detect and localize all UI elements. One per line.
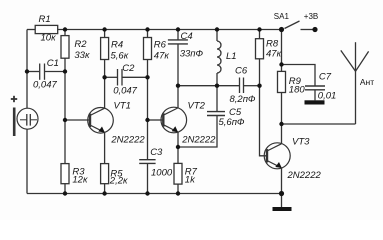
transistor VT3 [264, 143, 290, 169]
capacitor C5 [207, 112, 225, 116]
svg-text:5,6к: 5,6к [111, 50, 129, 61]
svg-text:47к: 47к [266, 48, 282, 59]
wire VT1 base [65, 119, 90, 121]
node R5 bottom [102, 191, 106, 195]
capacitor C2 [118, 69, 123, 86]
wire mid rail right segment [244, 85, 260, 87]
svg-text:0,047: 0,047 [33, 80, 57, 91]
node ground [279, 191, 284, 196]
svg-text:VT1: VT1 [114, 101, 131, 112]
wire C7 bottom lead [314, 90, 316, 101]
svg-text:C7: C7 [319, 72, 332, 83]
wire base node down to R3 [64, 120, 66, 164]
wire left column (mic bottom) [26, 129, 28, 193]
wire L1 bottom lead [216, 73, 218, 86]
node VT2 emitter [176, 145, 180, 149]
node R8 top [257, 27, 261, 31]
wire R6 top lead [147, 30, 149, 38]
wire top rail R1 to SA1 [58, 29, 282, 31]
resistor R8 [256, 39, 264, 59]
wire VT1 emitter to R5 [104, 132, 106, 163]
node R9 top [279, 62, 283, 66]
resistor R6 [144, 38, 152, 60]
node C3 bottom [145, 191, 149, 195]
switch SA1 lever [285, 21, 300, 29]
transistor VT2 [161, 107, 187, 133]
inductor L1 [217, 41, 221, 73]
wire R3 bottom lead [64, 184, 66, 194]
capacitor C1 [40, 64, 45, 80]
node +3B terminal [312, 27, 317, 32]
wire ground stub [281, 194, 283, 208]
svg-text:0,047: 0,047 [113, 86, 137, 97]
wire C2 left [105, 76, 117, 78]
node C1 right R2 bottom [63, 69, 67, 73]
node L1 top [215, 27, 219, 31]
resistor R1 [35, 25, 58, 33]
resistor R5 [101, 164, 109, 184]
capacitor C6 [240, 78, 244, 94]
wire C5 top to L1 node [216, 86, 218, 112]
capacitor C4 [168, 40, 188, 44]
mic plus sign [11, 96, 17, 102]
resistor R2 [61, 36, 69, 59]
node SA1 left terminal [279, 27, 284, 32]
node C1 left [25, 69, 29, 73]
svg-text:2,2к: 2,2к [109, 176, 128, 187]
wire bottom rail [27, 193, 282, 195]
svg-text:C2: C2 [122, 63, 135, 74]
wire L1 top lead [216, 30, 218, 42]
wire emitter node to C5 [178, 116, 217, 148]
wire R2 bottom to C1 node [64, 58, 66, 71]
svg-text:2N2222: 2N2222 [181, 135, 216, 146]
wire VT2 base node down to C3 [147, 120, 149, 160]
node C4 top [176, 27, 180, 31]
svg-text:2N2222: 2N2222 [110, 134, 145, 145]
wire mid rail left segment [178, 85, 239, 87]
wire VT1 collector [104, 77, 106, 108]
wire SA1 right terminal [301, 29, 314, 31]
svg-text:10к: 10к [41, 33, 57, 44]
wire R7 top lead [177, 147, 179, 163]
wire C2 right [123, 76, 148, 78]
node R3 bottom [63, 191, 67, 195]
resistor R4 [101, 38, 109, 60]
node R1-R2 [63, 27, 67, 31]
wire R4 top lead [104, 30, 106, 38]
svg-text:L1: L1 [226, 51, 237, 62]
svg-text:Ант: Ант [360, 77, 374, 87]
svg-text:SA1: SA1 [274, 12, 290, 21]
wire R6 bottom to C2 node [147, 60, 149, 78]
wire R8 bottom to mid node [259, 59, 261, 86]
wire R2 top lead [64, 30, 66, 36]
svg-text:0,01: 0,01 [318, 91, 337, 102]
wire C1 left [27, 71, 39, 73]
wire VT2 emitter down [177, 132, 179, 147]
svg-text:+3В: +3В [304, 12, 318, 21]
antenna right prong [356, 51, 369, 71]
resistor R9 [278, 71, 286, 92]
svg-text:C4: C4 [181, 31, 193, 42]
svg-text:VT2: VT2 [188, 101, 206, 112]
wire C2 node to VT2 base node [147, 77, 149, 120]
wire mid node down to VT3 base [260, 86, 268, 156]
node VT2 base [145, 118, 149, 122]
svg-text:C1: C1 [47, 58, 59, 69]
node R7 bottom [176, 191, 180, 195]
wire collector node to antenna [282, 123, 356, 125]
resistor R7 [174, 163, 182, 184]
wire SA1 down to R9 node [281, 30, 283, 65]
node R8 bottom [257, 84, 261, 88]
node VT1 base [63, 118, 67, 122]
wire VT2 collector [177, 86, 179, 108]
capacitor C7 [305, 86, 325, 90]
wire R9 bottom to collector node [281, 93, 283, 125]
svg-text:VT3: VT3 [292, 136, 310, 147]
capacitor C3 [139, 160, 155, 164]
wire left column (mic top) [26, 30, 28, 109]
svg-text:33к: 33к [74, 50, 90, 61]
svg-text:1000: 1000 [151, 167, 173, 178]
wire R5 bottom lead [104, 184, 106, 194]
wire top rail left lead to R1 [27, 29, 35, 31]
svg-text:R4: R4 [111, 39, 123, 50]
svg-text:C6: C6 [235, 66, 248, 77]
wire R7 bottom lead [177, 184, 179, 193]
wire C3 bottom lead [147, 163, 149, 193]
node C2 right [145, 75, 149, 79]
wire C1 node to VT1 base node [64, 72, 66, 121]
wire R9 node to C7 [282, 65, 316, 87]
wire VT2 base [148, 119, 164, 121]
node C4 bottom [176, 84, 180, 88]
node R4 top [102, 27, 106, 31]
svg-text:R6: R6 [154, 39, 167, 50]
wire R9 top lead [281, 65, 283, 72]
svg-text:47к: 47к [154, 50, 170, 61]
svg-text:12к: 12к [72, 175, 88, 186]
svg-text:8,2пФ: 8,2пФ [230, 94, 256, 105]
svg-text:5,6пФ: 5,6пФ [219, 117, 245, 128]
transistor VT1 [88, 108, 114, 134]
ground (bottom) [273, 207, 292, 211]
wire VT3 emitter down [281, 168, 283, 194]
svg-text:R2: R2 [74, 39, 87, 50]
antenna left prong [341, 50, 356, 71]
svg-text:1k: 1k [185, 174, 196, 185]
svg-text:R1: R1 [39, 14, 51, 25]
svg-text:2N2222: 2N2222 [287, 170, 322, 181]
svg-text:180: 180 [289, 84, 306, 95]
svg-text:C3: C3 [150, 147, 163, 158]
ground (C7) [305, 100, 325, 104]
microphone BM1 [14, 108, 38, 137]
node R6 top [145, 27, 149, 31]
antenna mast [355, 42, 357, 124]
wire VT3 collector [281, 124, 283, 144]
resistor R3 [61, 164, 69, 184]
wire C4 top lead [177, 30, 179, 40]
node VT3 collector [279, 122, 283, 126]
wire R8 top lead [259, 30, 261, 39]
svg-text:33пФ: 33пФ [180, 48, 204, 59]
wire R4 bottom to C2 node [104, 60, 106, 78]
wire C1 right [45, 71, 65, 73]
wire C4 bottom to mid node [177, 44, 179, 86]
node L1 bottom [215, 84, 219, 88]
node C2 left [102, 75, 106, 79]
